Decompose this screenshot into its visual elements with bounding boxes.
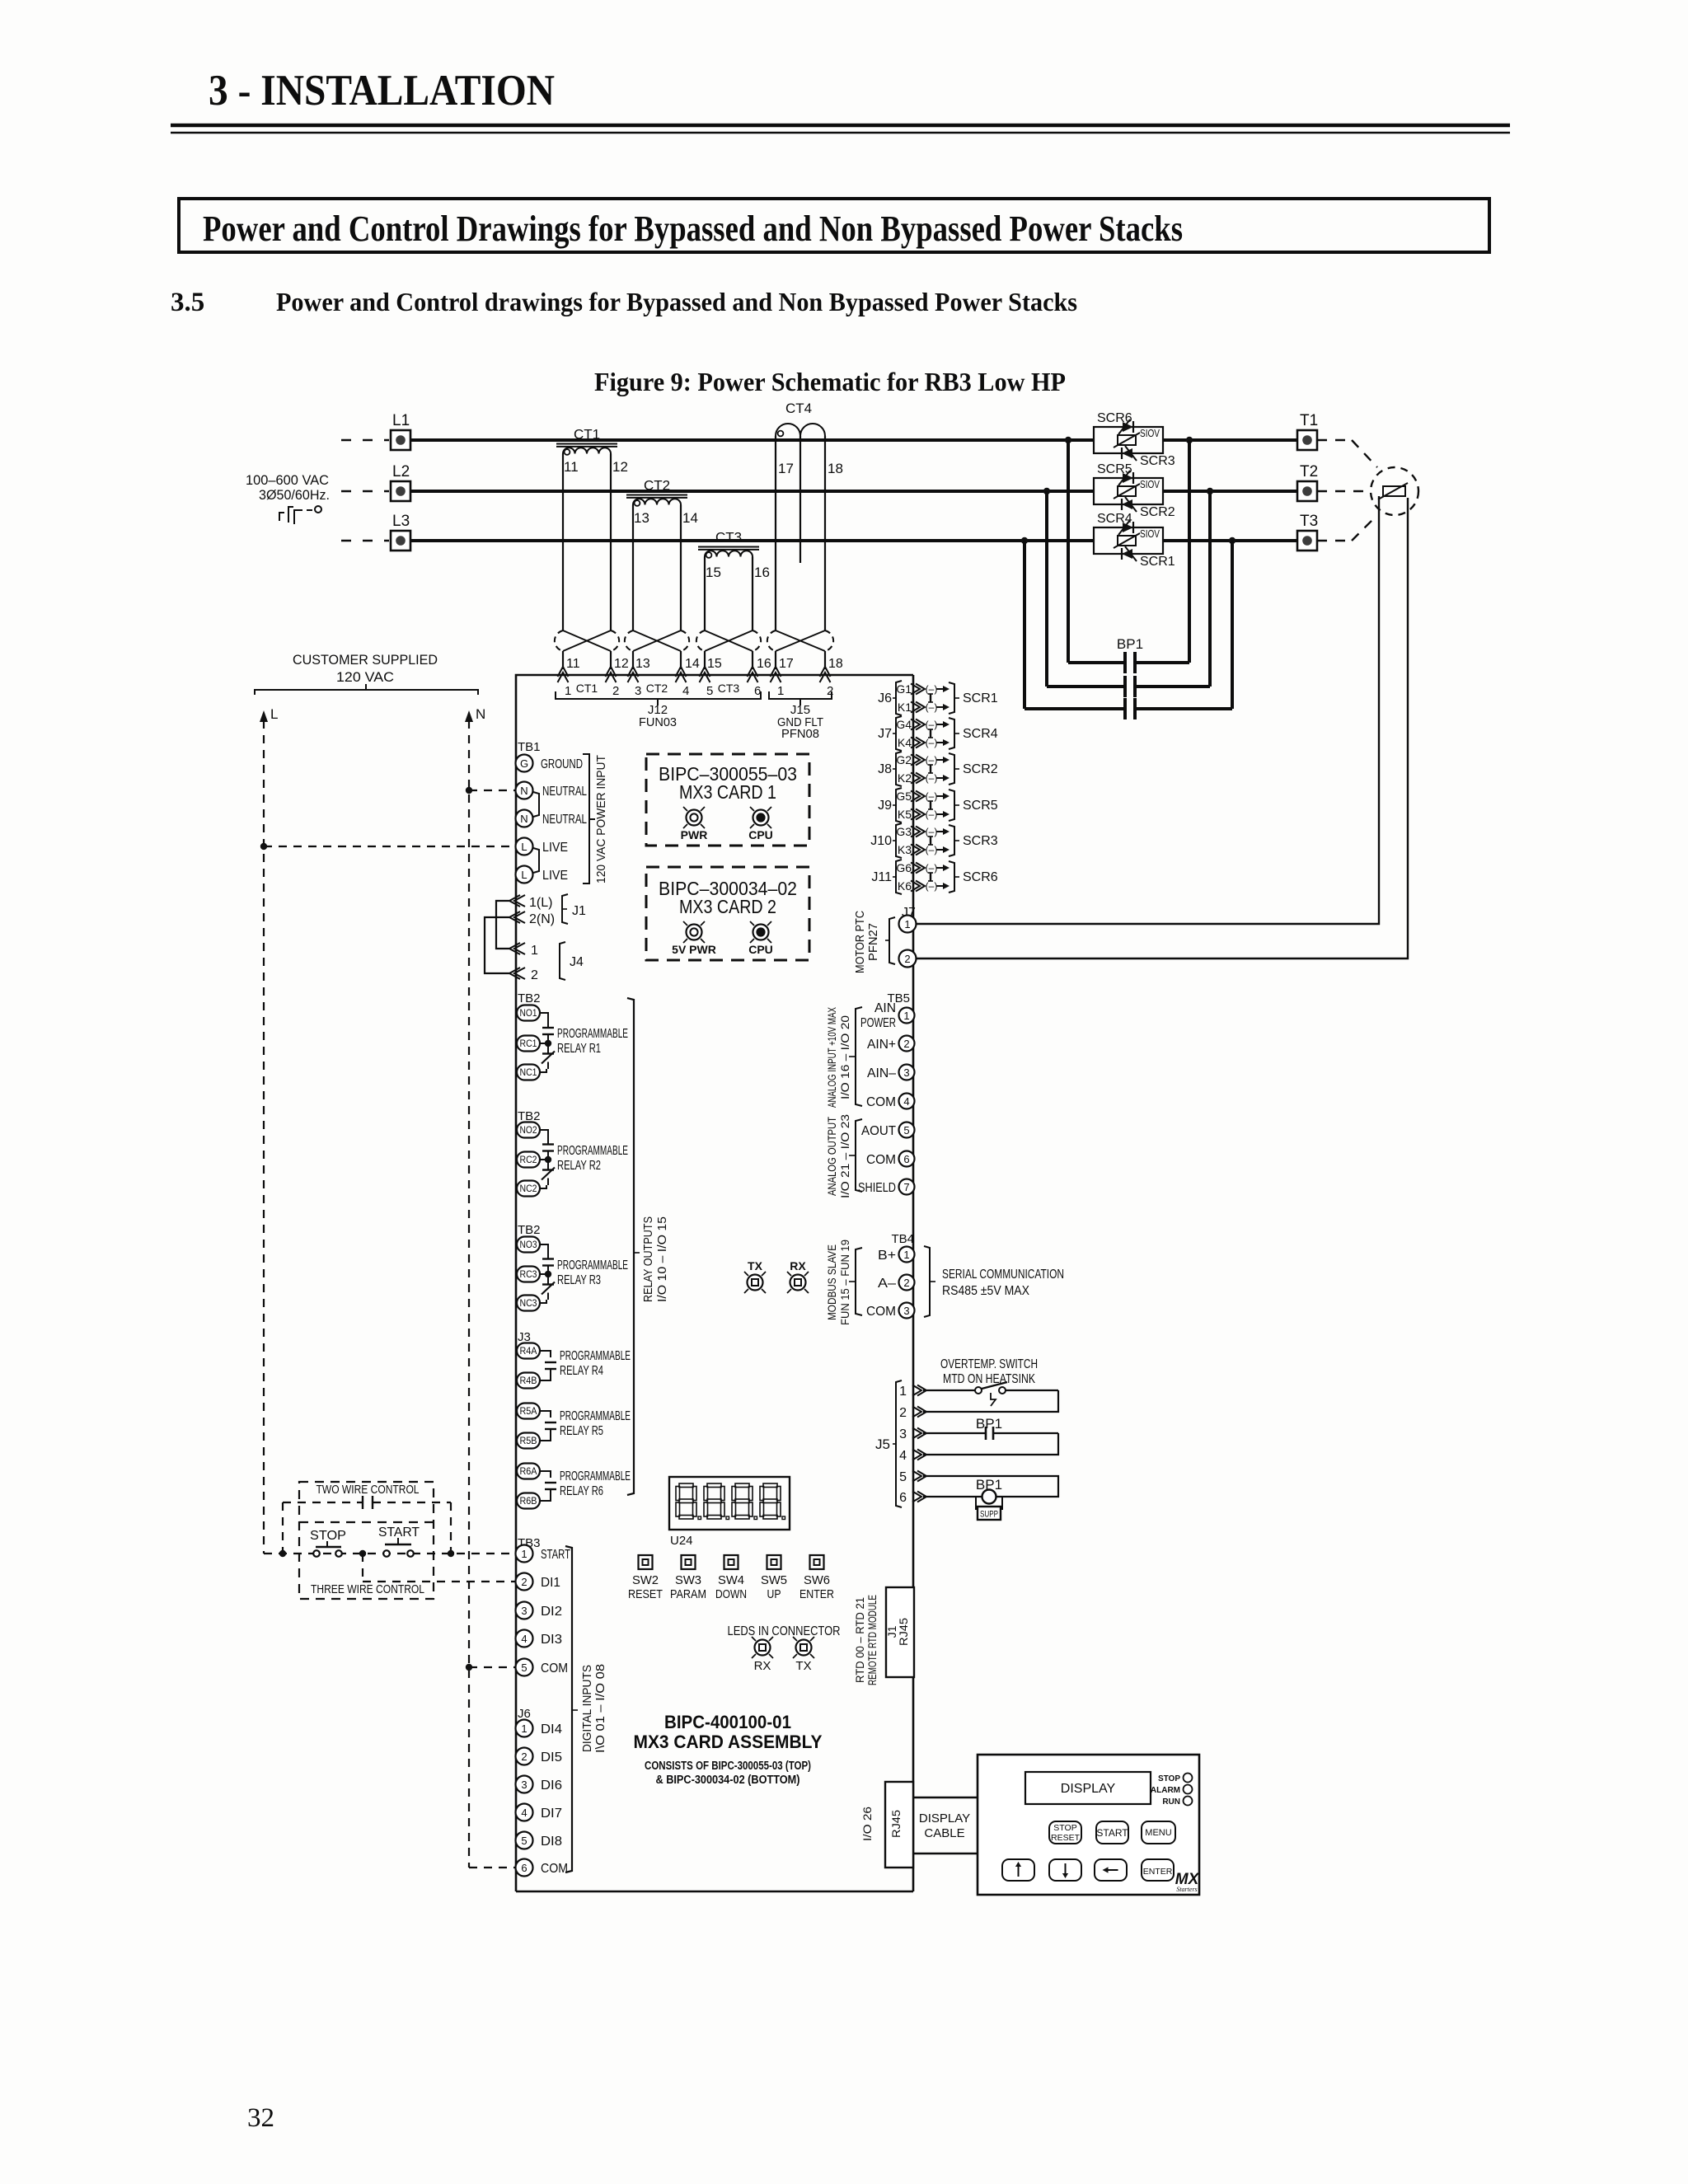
svg-text:1: 1 bbox=[903, 1249, 909, 1261]
svg-text:AIN: AIN bbox=[874, 1001, 896, 1015]
svg-text:& BIPC-300034-02 (BOTTOM): & BIPC-300034-02 (BOTTOM) bbox=[656, 1774, 800, 1787]
gate lead bracket SCR2 bbox=[949, 753, 954, 785]
svg-text:(–): (–) bbox=[926, 737, 938, 748]
svg-text:COM: COM bbox=[541, 1862, 568, 1876]
connector J7 pin G4 bbox=[911, 719, 920, 730]
wire L3 to T3 bbox=[1163, 539, 1297, 542]
SCR pair SCR6/SCR3 with SIOV (phase 1) bbox=[1094, 411, 1175, 468]
svg-text:120 VAC: 120 VAC bbox=[336, 669, 394, 685]
svg-text:SCR3: SCR3 bbox=[1140, 454, 1175, 468]
svg-text:NO1: NO1 bbox=[520, 1009, 537, 1019]
svg-text:L2: L2 bbox=[392, 463, 410, 480]
gate lead bracket SCR1 bbox=[949, 682, 954, 714]
J6 pin 1 DI4 bbox=[516, 1720, 533, 1737]
svg-text:MENU: MENU bbox=[1145, 1828, 1171, 1838]
svg-text:15: 15 bbox=[707, 657, 722, 671]
svg-text:CT3: CT3 bbox=[715, 530, 742, 546]
svg-text:COM: COM bbox=[866, 1305, 896, 1319]
J1 pin 1(L) bbox=[509, 895, 520, 907]
svg-text:RELAY R1: RELAY R1 bbox=[557, 1042, 601, 1056]
svg-text:LEDS IN CONNECTOR: LEDS IN CONNECTOR bbox=[728, 1624, 841, 1638]
J5 pin 1 bbox=[912, 1385, 921, 1396]
svg-text:SCR3: SCR3 bbox=[963, 834, 998, 848]
dashed lead T1 to motor bbox=[1317, 439, 1352, 441]
svg-text:CT1: CT1 bbox=[574, 427, 600, 443]
terminal L2 bbox=[391, 481, 410, 501]
svg-text:SW2: SW2 bbox=[632, 1573, 659, 1587]
svg-text:R5A: R5A bbox=[520, 1407, 537, 1417]
svg-text:3: 3 bbox=[635, 684, 641, 698]
svg-text:RTD 00 – RTD 21: RTD 00 – RTD 21 bbox=[853, 1597, 866, 1683]
svg-text:RELAY R5: RELAY R5 bbox=[560, 1424, 603, 1438]
svg-text:NC1: NC1 bbox=[520, 1068, 537, 1078]
svg-text:UP: UP bbox=[767, 1587, 781, 1601]
connector pin 1 at x=683 bbox=[558, 667, 569, 677]
wire dashed N to J6 COM bbox=[469, 1867, 516, 1868]
svg-text:SCR1: SCR1 bbox=[963, 691, 998, 705]
J8 group bracket bbox=[896, 752, 902, 786]
svg-text:CONSISTS OF BIPC-300055-03 (TO: CONSISTS OF BIPC-300055-03 (TOP) bbox=[645, 1760, 811, 1773]
node L-live bbox=[260, 843, 267, 850]
current transformer CT1 bbox=[556, 427, 628, 631]
svg-text:SCR4: SCR4 bbox=[1097, 512, 1132, 526]
svg-text:STOP: STOP bbox=[1053, 1823, 1076, 1833]
7-segment display U24 box bbox=[669, 1477, 790, 1530]
analog output bracket bbox=[856, 1119, 862, 1192]
svg-text:100–600 VAC: 100–600 VAC bbox=[246, 472, 329, 488]
coil BP1 bbox=[982, 1490, 996, 1504]
node control right bbox=[448, 1550, 454, 1557]
svg-text:T3: T3 bbox=[1300, 513, 1318, 530]
twisted pair CT2 leads bbox=[625, 630, 689, 651]
J6 pin 4 DI7 bbox=[516, 1804, 533, 1821]
svg-text:J6: J6 bbox=[878, 691, 892, 705]
svg-text:G2: G2 bbox=[896, 753, 912, 766]
svg-text:START: START bbox=[541, 1548, 570, 1562]
svg-text:G6: G6 bbox=[896, 861, 912, 874]
button up arrow bbox=[1002, 1859, 1034, 1881]
svg-text:5: 5 bbox=[521, 1835, 527, 1847]
svg-text:SERIAL COMMUNICATION: SERIAL COMMUNICATION bbox=[942, 1268, 1064, 1282]
svg-text:G1: G1 bbox=[896, 682, 912, 696]
node L2 bypass left bbox=[1043, 488, 1050, 494]
svg-text:L: L bbox=[521, 869, 527, 881]
svg-text:K6: K6 bbox=[898, 879, 912, 893]
wire dashed N to TB3 COM bbox=[469, 1666, 516, 1668]
J1 bracket bbox=[562, 894, 568, 924]
wire CT lead 16 to card bbox=[752, 651, 753, 669]
svg-text:RUN: RUN bbox=[1162, 1797, 1180, 1807]
wire J1-2 to J4-2 bbox=[485, 917, 509, 973]
svg-text:TB2: TB2 bbox=[518, 1223, 541, 1237]
svg-text:AIN+: AIN+ bbox=[867, 1038, 896, 1052]
svg-text:TB4: TB4 bbox=[891, 1232, 914, 1246]
svg-text:NO3: NO3 bbox=[520, 1240, 537, 1250]
svg-text:4: 4 bbox=[521, 1633, 527, 1645]
svg-text:3Ø50/60Hz.: 3Ø50/60Hz. bbox=[259, 487, 330, 503]
svg-text:Power and Control Drawings for: Power and Control Drawings for Bypassed … bbox=[203, 209, 1183, 249]
TB1 pin G bbox=[516, 755, 533, 772]
svg-text:3: 3 bbox=[899, 1427, 907, 1441]
svg-text:5V PWR: 5V PWR bbox=[672, 943, 716, 956]
twisted pair CT1 leads bbox=[555, 630, 619, 651]
svg-text:RC1: RC1 bbox=[520, 1039, 537, 1049]
svg-text:J9: J9 bbox=[878, 799, 892, 813]
svg-text:13: 13 bbox=[635, 657, 650, 671]
J1 pin 2(N) bbox=[509, 912, 520, 923]
modbus bracket bbox=[856, 1248, 862, 1315]
svg-text:TX: TX bbox=[748, 1259, 763, 1272]
dashed lead T2 to motor bbox=[1317, 490, 1371, 492]
TB4 pin 1 B+ bbox=[899, 1247, 915, 1263]
J7 gate symbol bbox=[930, 729, 931, 738]
J7 pin 2 bbox=[899, 950, 917, 968]
svg-text:RC2: RC2 bbox=[520, 1155, 537, 1165]
button START bbox=[1096, 1821, 1128, 1844]
wire L1 to T1 bbox=[1163, 438, 1297, 442]
gate lead bracket SCR4 bbox=[949, 718, 954, 749]
J4 bracket bbox=[560, 942, 565, 980]
svg-text:RELAY R2: RELAY R2 bbox=[557, 1159, 601, 1173]
TB5 pin 4 COM bbox=[899, 1094, 915, 1109]
svg-text:(–): (–) bbox=[926, 754, 938, 766]
svg-text:17: 17 bbox=[779, 657, 794, 671]
LED TX bbox=[796, 1640, 812, 1656]
analog input bracket bbox=[856, 1007, 862, 1106]
svg-text:R6A: R6A bbox=[520, 1467, 537, 1477]
TB1 jumper N1-N2 bbox=[533, 792, 539, 817]
svg-text:POWER: POWER bbox=[860, 1016, 896, 1030]
LED RX bbox=[755, 1640, 771, 1656]
svg-text:T1: T1 bbox=[1300, 412, 1318, 429]
two wire contact bbox=[362, 1496, 363, 1509]
J9 gate symbol bbox=[930, 801, 931, 809]
bypass contact BP1 phase2 bbox=[1045, 491, 1048, 687]
svg-text:SCR5: SCR5 bbox=[963, 799, 998, 813]
svg-text:PROGRAMMABLE: PROGRAMMABLE bbox=[560, 1349, 631, 1363]
connector J9 pin K5 bbox=[911, 809, 920, 820]
svg-text:AIN–: AIN– bbox=[867, 1066, 896, 1080]
svg-text:16: 16 bbox=[757, 657, 771, 671]
button SW2 RESET bbox=[639, 1555, 653, 1569]
gate lead bracket SCR5 bbox=[949, 790, 954, 821]
svg-text:L: L bbox=[270, 706, 278, 722]
svg-text:J10: J10 bbox=[870, 834, 892, 848]
J8 gate symbol bbox=[930, 765, 931, 773]
TB1 jumper L1-L2 bbox=[533, 848, 539, 873]
connector J11 pin K6 bbox=[911, 881, 920, 892]
svg-text:1: 1 bbox=[904, 918, 910, 930]
svg-text:SW5: SW5 bbox=[761, 1573, 787, 1587]
node L1 bypass left bbox=[1065, 437, 1071, 443]
LED PWR card1 bbox=[687, 810, 702, 826]
J6 gate symbol bbox=[930, 694, 931, 702]
svg-text:(–): (–) bbox=[926, 880, 938, 892]
earth fault symbol bbox=[279, 513, 284, 521]
dashed lead T3 to motor bbox=[1317, 540, 1352, 541]
J9 group bracket bbox=[896, 788, 902, 823]
svg-text:RELAY OUTPUTS: RELAY OUTPUTS bbox=[641, 1216, 655, 1302]
svg-text:R4B: R4B bbox=[520, 1376, 537, 1386]
svg-text:RESET: RESET bbox=[628, 1587, 663, 1601]
svg-text:SW3: SW3 bbox=[675, 1573, 701, 1587]
node L2 bypass right bbox=[1207, 488, 1213, 494]
button ENTER bbox=[1142, 1859, 1174, 1881]
svg-text:U24: U24 bbox=[670, 1534, 693, 1548]
svg-text:J11: J11 bbox=[871, 870, 892, 884]
svg-text:CPU: CPU bbox=[748, 943, 773, 956]
svg-text:CT2: CT2 bbox=[646, 682, 668, 695]
relay R5 terminals bbox=[517, 1404, 540, 1419]
wire dashed N vertical bbox=[468, 720, 470, 1868]
svg-text:120 VAC POWER INPUT: 120 VAC POWER INPUT bbox=[594, 755, 608, 883]
svg-text:DOWN: DOWN bbox=[715, 1587, 747, 1601]
wire J1-1 to J4-1 bbox=[496, 901, 509, 949]
node L3 bypass right bbox=[1229, 537, 1236, 544]
TB1 pin N2 bbox=[516, 810, 533, 827]
J7 group bracket bbox=[896, 716, 902, 751]
J7 pin 1 bbox=[899, 916, 917, 933]
svg-text:2: 2 bbox=[827, 684, 833, 698]
TB5 pin 1 POWER bbox=[899, 1008, 915, 1024]
node L3 bypass left bbox=[1021, 537, 1028, 544]
svg-text:PROGRAMMABLE: PROGRAMMABLE bbox=[560, 1409, 631, 1423]
svg-text:5: 5 bbox=[903, 1124, 909, 1137]
svg-text:K1: K1 bbox=[898, 701, 912, 714]
svg-text:COM: COM bbox=[866, 1153, 896, 1167]
wire CT lead 14 to card bbox=[680, 651, 682, 669]
svg-text:N: N bbox=[520, 785, 527, 797]
svg-text:2(N): 2(N) bbox=[529, 912, 555, 926]
J5 pin 2 bbox=[912, 1407, 921, 1418]
button SW6 ENTER bbox=[810, 1555, 824, 1569]
svg-text:DI3: DI3 bbox=[541, 1633, 562, 1647]
svg-text:(–): (–) bbox=[926, 683, 938, 695]
svg-text:TB2: TB2 bbox=[518, 991, 541, 1005]
J12 bracket bbox=[556, 691, 761, 699]
svg-text:FUN 15 – FUN 19: FUN 15 – FUN 19 bbox=[838, 1240, 851, 1325]
svg-text:J1: J1 bbox=[572, 904, 586, 918]
wire L1 bus bbox=[410, 438, 1094, 442]
svg-text:4: 4 bbox=[903, 1095, 909, 1108]
svg-text:2: 2 bbox=[521, 1576, 527, 1588]
svg-text:DISPLAY: DISPLAY bbox=[1061, 1782, 1116, 1796]
svg-text:I\O 01 – I/O 08: I\O 01 – I/O 08 bbox=[593, 1664, 607, 1753]
wire dashed L vertical bbox=[263, 720, 265, 1554]
svg-text:SCR1: SCR1 bbox=[1140, 555, 1175, 569]
svg-text:MODBUS SLAVE: MODBUS SLAVE bbox=[825, 1244, 838, 1320]
svg-text:3 - INSTALLATION: 3 - INSTALLATION bbox=[209, 67, 555, 115]
svg-text:PFN27: PFN27 bbox=[866, 923, 880, 961]
svg-text:STOP: STOP bbox=[310, 1529, 346, 1543]
boxed title bbox=[179, 199, 1489, 252]
motor lead 1 wire bbox=[917, 496, 1379, 924]
svg-text:LIVE: LIVE bbox=[542, 869, 568, 883]
svg-text:2: 2 bbox=[531, 968, 538, 982]
svg-text:RC3: RC3 bbox=[520, 1270, 537, 1280]
svg-text:R4A: R4A bbox=[520, 1347, 537, 1357]
svg-text:DI7: DI7 bbox=[541, 1807, 562, 1821]
BP1 aux loop wire bbox=[923, 1433, 1058, 1455]
svg-text:1: 1 bbox=[531, 944, 538, 958]
TB3 pin 5 COM bbox=[516, 1659, 533, 1676]
svg-text:ANALOG INPUT +10V MAX: ANALOG INPUT +10V MAX bbox=[825, 1007, 838, 1108]
svg-text:I/O 26: I/O 26 bbox=[860, 1807, 874, 1841]
motor PTC element bbox=[1383, 486, 1405, 496]
svg-text:6: 6 bbox=[521, 1862, 527, 1874]
svg-text:L: L bbox=[521, 841, 527, 853]
svg-text:11: 11 bbox=[566, 657, 580, 671]
svg-text:BP1: BP1 bbox=[976, 1416, 1002, 1432]
display cable wires bbox=[913, 1797, 978, 1798]
svg-text:1: 1 bbox=[565, 684, 571, 698]
bypass contact BP1 phase3 bbox=[1023, 541, 1026, 709]
svg-text:SCR2: SCR2 bbox=[963, 762, 998, 776]
svg-text:K3: K3 bbox=[898, 843, 912, 856]
svg-text:CT1: CT1 bbox=[576, 682, 598, 695]
TB3 pin 1 START bbox=[516, 1545, 533, 1563]
wire DI1 branch dashed bbox=[362, 1554, 363, 1582]
TB5 pin 2 AIN+ bbox=[899, 1036, 915, 1052]
connector pin 2 at x=741 bbox=[606, 667, 617, 677]
svg-text:(–): (–) bbox=[926, 790, 938, 802]
svg-text:ANALOG OUTPUT: ANALOG OUTPUT bbox=[825, 1117, 838, 1196]
TB3 pin 3 DI2 bbox=[516, 1602, 533, 1619]
connector pin 1 at x=941 bbox=[771, 667, 781, 677]
svg-text:PROGRAMMABLE: PROGRAMMABLE bbox=[557, 1258, 628, 1272]
connector J11 pin G6 bbox=[911, 863, 920, 874]
motor lead 2 wire bbox=[917, 498, 1408, 958]
relay R6 terminals bbox=[517, 1464, 540, 1479]
node control left bbox=[279, 1550, 286, 1557]
node N-COM bbox=[466, 1664, 472, 1671]
SCR pair SCR5/SCR2 with SIOV (phase 2) bbox=[1094, 462, 1175, 519]
LED CPU card2 bbox=[753, 925, 769, 940]
svg-text:SW6: SW6 bbox=[804, 1573, 830, 1587]
svg-text:J7: J7 bbox=[878, 727, 892, 741]
svg-text:J8: J8 bbox=[878, 762, 892, 776]
svg-text:RELAY R3: RELAY R3 bbox=[557, 1273, 601, 1287]
svg-text:5: 5 bbox=[899, 1470, 907, 1484]
terminal L2 lead-in dashes bbox=[341, 490, 389, 492]
svg-text:COM: COM bbox=[541, 1661, 568, 1675]
TB3 pin 4 DI3 bbox=[516, 1630, 533, 1647]
connector J9 pin G5 bbox=[911, 791, 920, 802]
J6 group bracket bbox=[896, 681, 902, 715]
svg-text:ENTER: ENTER bbox=[799, 1587, 834, 1601]
wire CT lead 15 to card bbox=[704, 651, 706, 669]
svg-text:SCR6: SCR6 bbox=[1097, 411, 1132, 425]
svg-text:(–): (–) bbox=[926, 862, 938, 874]
svg-text:2: 2 bbox=[521, 1750, 527, 1763]
svg-text:2: 2 bbox=[903, 1038, 909, 1050]
suppressor SUPP bbox=[975, 1497, 977, 1510]
TB5 pin 5 AOUT bbox=[899, 1122, 915, 1138]
svg-text:TB1: TB1 bbox=[518, 740, 541, 754]
svg-text:1(L): 1(L) bbox=[529, 896, 552, 910]
svg-text:MTD ON HEATSINK: MTD ON HEATSINK bbox=[943, 1372, 1035, 1386]
J1 RJ45 connector bbox=[886, 1587, 914, 1677]
svg-text:N: N bbox=[476, 706, 485, 722]
svg-text:RJ45: RJ45 bbox=[897, 1618, 910, 1646]
terminal L3 lead-in dashes bbox=[341, 540, 389, 541]
SCR pair SCR4/SCR1 with SIOV (phase 3) bbox=[1094, 512, 1175, 569]
svg-text:K2: K2 bbox=[898, 771, 912, 785]
svg-text:MOTOR PTC: MOTOR PTC bbox=[853, 911, 867, 973]
svg-text:1: 1 bbox=[521, 1548, 527, 1560]
svg-text:SIOV: SIOV bbox=[1140, 527, 1160, 540]
svg-text:NC3: NC3 bbox=[520, 1299, 537, 1309]
TB4 pin 2 A&#8211; bbox=[899, 1275, 915, 1291]
svg-text:NEUTRAL: NEUTRAL bbox=[542, 785, 587, 799]
TB5 pin 7 SHIELD bbox=[899, 1179, 915, 1195]
button STOP/RESET bbox=[1049, 1821, 1081, 1844]
J5 bracket bbox=[896, 1380, 902, 1507]
J11 group bracket bbox=[896, 860, 902, 894]
wire L3 bus bbox=[410, 539, 1094, 542]
keypad display window bbox=[1025, 1772, 1151, 1804]
LED CPU card1 bbox=[753, 810, 769, 826]
svg-text:NO2: NO2 bbox=[520, 1126, 537, 1136]
svg-text:12: 12 bbox=[614, 657, 629, 671]
svg-text:RX: RX bbox=[754, 1659, 771, 1673]
svg-text:THREE WIRE CONTROL: THREE WIRE CONTROL bbox=[311, 1582, 424, 1596]
svg-text:R6B: R6B bbox=[520, 1497, 537, 1507]
svg-text:RELAY R6: RELAY R6 bbox=[560, 1484, 603, 1498]
svg-text:START: START bbox=[378, 1526, 420, 1540]
svg-text:18: 18 bbox=[828, 461, 843, 476]
twisted pair CT3 leads bbox=[696, 630, 761, 651]
connector pin 5 at x=855 bbox=[700, 667, 710, 677]
svg-text:SHIELD: SHIELD bbox=[858, 1181, 896, 1195]
J11 gate symbol bbox=[930, 873, 931, 881]
svg-text:14: 14 bbox=[685, 657, 700, 671]
TB3 pin 2 DI1 bbox=[516, 1573, 533, 1591]
connector J8 pin G2 bbox=[911, 755, 920, 766]
svg-text:L3: L3 bbox=[392, 513, 410, 530]
svg-text:R5B: R5B bbox=[520, 1436, 537, 1446]
svg-text:2: 2 bbox=[904, 953, 910, 965]
wire dashed L to TB1 live bbox=[264, 846, 516, 847]
svg-text:I/O 10 – I/O 15: I/O 10 – I/O 15 bbox=[655, 1216, 669, 1302]
svg-text:NC2: NC2 bbox=[520, 1184, 537, 1194]
J5 pin 5 bbox=[912, 1471, 921, 1482]
motor PTC bracket bbox=[889, 917, 895, 964]
connector pin 3 at x=768 bbox=[628, 667, 639, 677]
overtemp switch symbol bbox=[923, 1390, 975, 1391]
svg-text:K5: K5 bbox=[898, 808, 912, 821]
node L1 bypass right bbox=[1186, 437, 1193, 443]
serial bracket right bbox=[924, 1246, 930, 1317]
svg-text:6: 6 bbox=[899, 1491, 907, 1505]
two wire loop bbox=[283, 1502, 363, 1503]
svg-text:J5: J5 bbox=[875, 1436, 890, 1452]
svg-text:G4: G4 bbox=[896, 718, 912, 731]
svg-text:PROGRAMMABLE: PROGRAMMABLE bbox=[557, 1027, 628, 1041]
J5 pin 6 bbox=[912, 1492, 921, 1502]
svg-text:START: START bbox=[1096, 1827, 1128, 1839]
N supply arrow bbox=[465, 710, 473, 722]
wire CT lead 17 to card bbox=[775, 651, 776, 669]
TB1 pin L1 bbox=[516, 838, 533, 855]
svg-text:15: 15 bbox=[706, 565, 721, 580]
connector J8 pin K2 bbox=[911, 773, 920, 784]
svg-text:I/O 16 – I/O 20: I/O 16 – I/O 20 bbox=[838, 1015, 851, 1099]
svg-text:BIPC-400100-01: BIPC-400100-01 bbox=[664, 1712, 791, 1732]
svg-text:SCR6: SCR6 bbox=[963, 870, 998, 884]
connector pin 4 at x=826 bbox=[676, 667, 687, 677]
svg-text:7: 7 bbox=[903, 1181, 909, 1193]
